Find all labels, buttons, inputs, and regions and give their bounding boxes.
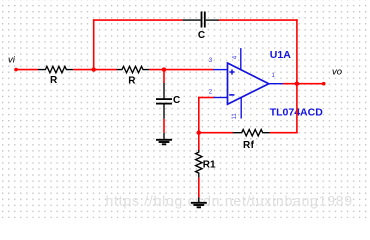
- resistor R (second): [117, 66, 150, 86]
- capacitor C (shunt): [156, 83, 180, 119]
- wire riser junction A to top: [93, 19, 95, 69]
- pin number 4: [233, 55, 239, 59]
- svg-text:R1: R1: [203, 159, 216, 170]
- resistor R (first): [38, 66, 73, 86]
- svg-text:https://blog.csdn.net/tuxinban: https://blog.csdn.net/tuxinbang1989: [106, 193, 353, 209]
- op-amp U1A triangle: [228, 63, 269, 104]
- svg-text:R: R: [50, 75, 58, 86]
- wire capacitor C to ground 1: [163, 119, 165, 133]
- junction C (feedback node): [197, 131, 201, 135]
- node vo terminal dot: [322, 82, 326, 86]
- wire down to feedback node: [198, 97, 200, 133]
- wire R to R: [73, 69, 117, 71]
- node vi terminal dot: [14, 68, 18, 72]
- svg-text:2: 2: [209, 88, 213, 95]
- wire R1 to ground 2: [198, 178, 200, 198]
- label U1A: [270, 49, 291, 61]
- pin number 2: [209, 88, 213, 95]
- ground 2 (under R1): [191, 198, 207, 208]
- wire riser Rf to output node: [296, 84, 298, 133]
- capacitor C (feedback, top): [182, 12, 219, 42]
- svg-text:C: C: [173, 95, 180, 106]
- wire junction B down to capacitor C: [163, 70, 165, 84]
- pin number 1: [272, 73, 276, 79]
- wire right riser to output node: [296, 19, 298, 83]
- wire output to vo: [283, 83, 324, 85]
- resistor R1: [196, 150, 216, 178]
- wire Rf to output riser: [270, 132, 298, 134]
- node vo label: [332, 67, 342, 78]
- op-amp pin 3 stub: [213, 69, 228, 71]
- op-amp pin 4 line: [240, 48, 242, 70]
- wire vi to R: [16, 69, 39, 71]
- label TL074ACD: [270, 107, 324, 119]
- junction D (output node): [295, 82, 299, 86]
- junction A (feedback tap): [92, 67, 96, 71]
- svg-text:U1A: U1A: [270, 49, 291, 61]
- wire R to op-amp pin 3: [149, 69, 213, 71]
- svg-text:3: 3: [209, 57, 213, 64]
- ground 1 (under shunt C): [156, 133, 172, 145]
- wire top left to capacitor C: [93, 19, 182, 21]
- wire junction C to Rf: [199, 132, 233, 134]
- resistor Rf: [233, 130, 270, 152]
- op-amp plus sign: [229, 69, 234, 74]
- wire op-amp pin 2 to left: [198, 97, 214, 99]
- op-amp pin 2 stub: [213, 97, 228, 99]
- svg-text:vo: vo: [332, 67, 342, 78]
- junction B (to shunt C): [162, 67, 166, 71]
- svg-text:R: R: [128, 76, 136, 87]
- svg-text:vi: vi: [8, 55, 16, 66]
- op-amp minus sign: [229, 94, 234, 96]
- svg-text:11: 11: [232, 113, 238, 120]
- svg-text:Rf: Rf: [243, 140, 255, 151]
- op-amp pin 11 line: [240, 98, 242, 119]
- watermark: [106, 193, 353, 209]
- wire junction C down to R1: [198, 133, 200, 151]
- node vi label: [8, 55, 16, 66]
- svg-text:C: C: [198, 30, 205, 41]
- op-amp output stub pin 1: [269, 83, 283, 85]
- pin number 11: [232, 113, 238, 120]
- pin number 3: [209, 57, 213, 64]
- wire capacitor C to right riser: [219, 19, 298, 21]
